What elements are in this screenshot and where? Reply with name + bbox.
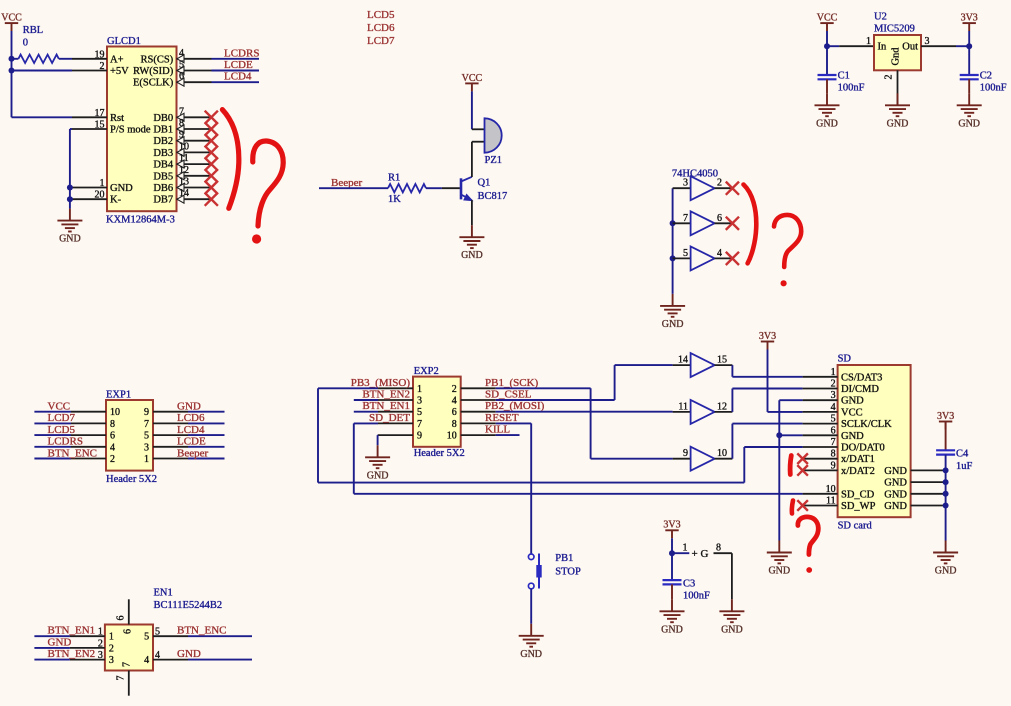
svg-text:Header 5X2: Header 5X2 [106, 474, 157, 485]
svg-text:C2: C2 [980, 71, 992, 82]
svg-text:3V3: 3V3 [759, 331, 776, 342]
svg-text:KXM12864M-3: KXM12864M-3 [106, 215, 175, 226]
svg-text:8: 8 [110, 419, 115, 430]
svg-text:x/DAT1: x/DAT1 [841, 454, 875, 465]
svg-text:GND: GND [367, 470, 389, 481]
svg-text:6: 6 [110, 431, 115, 442]
svg-text:Beeper: Beeper [177, 447, 208, 459]
svg-text:LCD4: LCD4 [224, 71, 252, 83]
svg-text:VCC: VCC [817, 13, 838, 24]
svg-text:1: 1 [109, 632, 114, 643]
svg-text:7: 7 [831, 437, 836, 448]
svg-text:7: 7 [122, 662, 133, 667]
svg-text:4: 4 [831, 402, 836, 413]
svg-text:LCDE: LCDE [177, 436, 206, 448]
svg-text:10: 10 [826, 484, 836, 495]
svg-text:BTN_EN2: BTN_EN2 [362, 389, 410, 401]
svg-text:5: 5 [683, 248, 688, 259]
svg-text:GND: GND [177, 648, 201, 660]
svg-text:P/S mode: P/S mode [110, 125, 151, 136]
svg-text:6: 6 [123, 629, 134, 634]
svg-text:DB5: DB5 [153, 171, 173, 182]
svg-text:BTN_EN1: BTN_EN1 [48, 625, 96, 637]
svg-text:4: 4 [110, 442, 115, 453]
svg-text:LCDRS: LCDRS [224, 47, 259, 59]
svg-text:PB2_(MOSI): PB2_(MOSI) [485, 400, 545, 412]
svg-text:3: 3 [417, 396, 422, 407]
svg-text:BTN_EN1: BTN_EN1 [362, 400, 410, 412]
svg-text:100nF: 100nF [683, 590, 710, 601]
svg-text:0: 0 [23, 38, 28, 49]
svg-text:9: 9 [144, 407, 149, 418]
svg-text:7: 7 [144, 419, 149, 430]
svg-text:K-: K- [110, 195, 122, 206]
svg-text:SD_CD: SD_CD [841, 489, 875, 500]
svg-text:4: 4 [155, 650, 160, 661]
svg-text:SD: SD [838, 353, 852, 364]
svg-text:8: 8 [452, 419, 457, 430]
svg-text:GND: GND [884, 489, 907, 500]
svg-text:7: 7 [683, 213, 688, 224]
svg-text:1uF: 1uF [956, 461, 973, 472]
svg-text:VCC: VCC [48, 401, 71, 413]
svg-text:DB0: DB0 [153, 113, 173, 124]
svg-text:GND: GND [177, 401, 201, 413]
svg-text:3: 3 [683, 178, 688, 189]
svg-text:10: 10 [110, 407, 120, 418]
svg-text:DB3: DB3 [153, 148, 173, 159]
svg-text:3: 3 [98, 650, 103, 661]
svg-text:GND: GND [721, 624, 743, 635]
svg-text:3: 3 [925, 36, 930, 47]
svg-text:2: 2 [717, 178, 722, 189]
svg-text:BTN_ENC: BTN_ENC [177, 625, 227, 637]
svg-text:In: In [878, 42, 887, 53]
svg-text:PB1: PB1 [555, 553, 573, 564]
svg-text:10: 10 [717, 448, 727, 459]
svg-text:GND: GND [520, 649, 542, 660]
svg-text:GND: GND [461, 250, 483, 261]
svg-text:RS(CS): RS(CS) [141, 54, 174, 65]
svg-text:SD card: SD card [838, 521, 873, 532]
svg-text:DI/CMD: DI/CMD [841, 384, 879, 395]
svg-text:SD_WP: SD_WP [841, 501, 876, 512]
svg-text:8: 8 [716, 543, 721, 554]
svg-text:C4: C4 [956, 449, 969, 460]
svg-text:SD_DET: SD_DET [369, 412, 410, 424]
svg-text:2: 2 [831, 379, 836, 390]
svg-text:LCDRS: LCDRS [48, 436, 83, 448]
svg-text:1: 1 [144, 454, 149, 465]
svg-text:MIC5209: MIC5209 [874, 24, 915, 35]
svg-text:11: 11 [678, 401, 688, 412]
svg-text:U2: U2 [874, 12, 887, 23]
svg-text:LCD5: LCD5 [367, 9, 395, 21]
svg-text:BTN_EN2: BTN_EN2 [48, 648, 96, 660]
svg-text:1: 1 [100, 178, 105, 189]
svg-text:GND: GND [884, 478, 907, 489]
svg-text:DB1: DB1 [153, 125, 173, 136]
svg-text:SD_CSEL: SD_CSEL [485, 389, 532, 401]
svg-text:3V3: 3V3 [961, 13, 978, 24]
svg-text:19: 19 [95, 49, 105, 60]
svg-text:6: 6 [717, 213, 722, 224]
svg-text:1: 1 [866, 36, 871, 47]
svg-text:x/DAT2: x/DAT2 [841, 466, 875, 477]
svg-text:BC111E5244B2: BC111E5244B2 [154, 600, 223, 611]
svg-text:3V3: 3V3 [663, 520, 680, 531]
svg-text:17: 17 [95, 108, 105, 119]
svg-text:3: 3 [831, 390, 836, 401]
svg-text:C1: C1 [838, 71, 850, 82]
svg-text:LCD4: LCD4 [177, 424, 205, 436]
svg-text:EN1: EN1 [154, 588, 173, 599]
svg-text:EXP1: EXP1 [106, 389, 131, 400]
svg-text:RW(SID): RW(SID) [133, 66, 174, 77]
svg-text:6: 6 [116, 616, 127, 621]
svg-text:20: 20 [95, 190, 105, 201]
svg-text:7: 7 [116, 676, 127, 681]
svg-text:7: 7 [417, 419, 422, 430]
svg-text:RBL: RBL [23, 25, 43, 36]
svg-text:2: 2 [452, 384, 457, 395]
svg-text:GND: GND [884, 501, 907, 512]
svg-text:5: 5 [417, 407, 422, 418]
svg-text:DB6: DB6 [153, 183, 173, 194]
svg-text:10: 10 [447, 431, 457, 442]
svg-text:GND: GND [887, 118, 909, 129]
svg-text:GND: GND [59, 234, 81, 245]
svg-text:Out: Out [902, 42, 918, 53]
svg-text:A+: A+ [110, 54, 124, 65]
svg-text:1: 1 [98, 627, 103, 638]
svg-text:GND: GND [816, 118, 838, 129]
svg-text:C3: C3 [683, 579, 695, 590]
svg-text:5: 5 [831, 414, 836, 425]
svg-text:6: 6 [452, 407, 457, 418]
svg-text:GND: GND [841, 396, 864, 407]
svg-text:6: 6 [831, 425, 836, 436]
svg-text:4: 4 [452, 396, 457, 407]
svg-text:LCD7: LCD7 [367, 35, 395, 47]
svg-text:LCD7: LCD7 [48, 412, 76, 424]
svg-text:DB7: DB7 [153, 195, 173, 206]
svg-text:KILL: KILL [485, 424, 510, 436]
svg-text:2: 2 [100, 61, 105, 72]
svg-text:2: 2 [884, 75, 895, 80]
svg-text:1: 1 [683, 543, 688, 554]
svg-text:GND: GND [48, 636, 72, 648]
svg-text:1: 1 [831, 367, 836, 378]
svg-text:12: 12 [717, 401, 727, 412]
svg-text:100nF: 100nF [980, 83, 1007, 94]
svg-text:DO/DAT0: DO/DAT0 [841, 443, 885, 454]
svg-text:14: 14 [678, 355, 688, 366]
svg-text:GND: GND [768, 566, 790, 577]
svg-text:2: 2 [98, 638, 103, 649]
svg-text:1: 1 [417, 384, 422, 395]
svg-text:LCD5: LCD5 [48, 424, 76, 436]
svg-text:BC817: BC817 [478, 191, 508, 202]
svg-text:RESET: RESET [485, 412, 519, 424]
svg-text:Beeper: Beeper [331, 177, 362, 189]
svg-text:GND: GND [661, 624, 683, 635]
svg-text:BTN_ENC: BTN_ENC [48, 447, 98, 459]
svg-text:5: 5 [144, 431, 149, 442]
svg-text:LCD6: LCD6 [367, 22, 395, 34]
svg-text:Rst: Rst [110, 113, 124, 124]
svg-text:GND: GND [662, 319, 684, 330]
svg-text:1K: 1K [388, 194, 401, 205]
svg-text:VCC: VCC [1, 13, 22, 24]
svg-text:5: 5 [155, 627, 160, 638]
svg-text:CS/DAT3: CS/DAT3 [841, 372, 882, 383]
svg-text:5: 5 [144, 632, 149, 643]
svg-text:LCD6: LCD6 [177, 412, 205, 424]
svg-text:3: 3 [144, 442, 149, 453]
svg-text:+5V: +5V [110, 66, 129, 77]
svg-text:3: 3 [109, 655, 114, 666]
svg-text:3V3: 3V3 [937, 411, 954, 422]
svg-text:LCDE: LCDE [224, 59, 253, 71]
svg-text:PB3_(MISO): PB3_(MISO) [351, 377, 411, 389]
svg-text:Q1: Q1 [478, 177, 491, 188]
svg-text:9: 9 [683, 448, 688, 459]
svg-text:Gnd: Gnd [891, 47, 902, 66]
svg-text:GND: GND [958, 118, 980, 129]
svg-text:DB4: DB4 [153, 160, 174, 171]
svg-text:GND: GND [935, 566, 957, 577]
svg-text:GLCD1: GLCD1 [107, 36, 141, 47]
svg-text:SCLK/CLK: SCLK/CLK [841, 419, 892, 430]
svg-text:11: 11 [826, 496, 836, 507]
svg-text:9: 9 [417, 431, 422, 442]
svg-text:GND: GND [884, 466, 907, 477]
svg-text:E(SCLK): E(SCLK) [133, 78, 174, 89]
svg-text:PB1_(SCK): PB1_(SCK) [485, 377, 539, 389]
svg-text:15: 15 [95, 120, 105, 131]
svg-text:GND: GND [841, 431, 864, 442]
svg-text:9: 9 [831, 460, 836, 471]
svg-text:GND: GND [110, 183, 133, 194]
svg-text:100nF: 100nF [838, 83, 865, 94]
svg-text:4: 4 [717, 248, 722, 259]
svg-text:2: 2 [109, 643, 114, 654]
svg-text:STOP: STOP [555, 567, 581, 578]
svg-text:R1: R1 [388, 173, 400, 184]
svg-text:PZ1: PZ1 [485, 155, 503, 166]
svg-text:4: 4 [144, 655, 149, 666]
svg-text:15: 15 [717, 355, 727, 366]
svg-text:2: 2 [110, 454, 115, 465]
svg-text:+ G: + G [692, 548, 709, 560]
svg-text:EXP2: EXP2 [414, 366, 439, 377]
svg-text:Header 5X2: Header 5X2 [414, 448, 465, 459]
svg-text:DB2: DB2 [153, 136, 173, 147]
svg-text:8: 8 [831, 449, 836, 460]
svg-text:VCC: VCC [462, 73, 483, 84]
svg-text:VCC: VCC [841, 407, 863, 418]
